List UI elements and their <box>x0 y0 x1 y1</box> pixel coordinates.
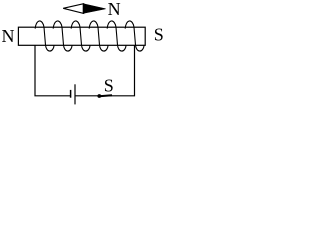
svg-text:S: S <box>154 25 164 45</box>
svg-text:N: N <box>108 0 121 19</box>
svg-text:S: S <box>104 76 114 96</box>
svg-text:N: N <box>2 26 15 46</box>
